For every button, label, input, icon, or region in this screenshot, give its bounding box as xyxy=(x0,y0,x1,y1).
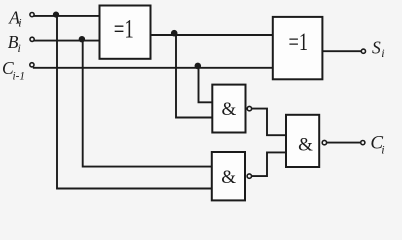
svg-text:i: i xyxy=(18,16,21,30)
svg-text:S: S xyxy=(372,37,381,57)
svg-text:i: i xyxy=(381,46,384,60)
svg-text:i-1: i-1 xyxy=(13,69,26,83)
svg-text:&: & xyxy=(298,134,313,155)
svg-text:=1: =1 xyxy=(114,15,134,44)
svg-text:=1: =1 xyxy=(289,29,309,56)
svg-text:&: & xyxy=(222,99,237,120)
svg-text:&: & xyxy=(221,167,236,188)
svg-text:i: i xyxy=(381,142,384,156)
svg-text:i: i xyxy=(18,41,21,55)
